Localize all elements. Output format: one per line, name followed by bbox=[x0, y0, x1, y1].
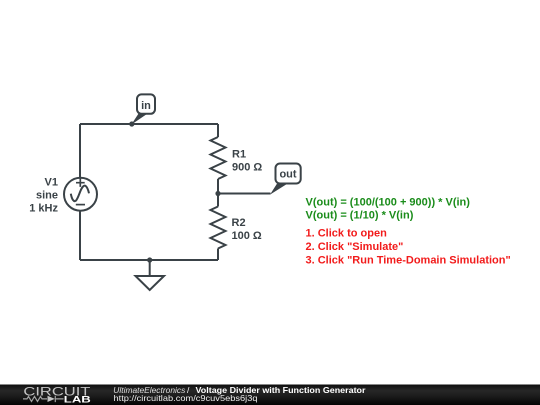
footer bar bbox=[0, 385, 540, 405]
svg-text:1 kHz: 1 kHz bbox=[29, 203, 58, 215]
svg-text:R2: R2 bbox=[232, 217, 246, 229]
svg-text:900 Ω: 900 Ω bbox=[232, 161, 262, 173]
svg-text:sine: sine bbox=[36, 190, 58, 202]
svg-text:V(out) = (100/(100 + 900)) * V: V(out) = (100/(100 + 900)) * V(in) bbox=[306, 196, 471, 208]
ground symbol stub bbox=[149, 260, 151, 276]
wire: left vertical from top net down to V1 top bbox=[79, 124, 81, 178]
svg-text:100 Ω: 100 Ω bbox=[232, 230, 262, 242]
svg-text:out: out bbox=[279, 169, 296, 181]
resistor R1 zigzag bbox=[211, 137, 226, 179]
voltage source V1 circle bbox=[64, 178, 97, 211]
wire: V1 bottom to bottom net bbox=[79, 211, 81, 260]
node flag out: tail bbox=[270, 184, 288, 195]
V1 plus sign bbox=[76, 179, 85, 187]
node flag in: box bbox=[137, 94, 155, 113]
wire: R1 bottom lead to out node bbox=[217, 179, 219, 194]
svg-text:R1: R1 bbox=[232, 149, 246, 161]
svg-text:V(out) = (1/10) * V(in): V(out) = (1/10) * V(in) bbox=[306, 209, 414, 221]
ground symbol triangle bbox=[136, 276, 165, 290]
wire: bottom net bbox=[80, 259, 218, 261]
wire: R2 bottom lead to bottom net bbox=[217, 249, 219, 261]
node: junction dot between R1 and R2 bbox=[215, 191, 220, 196]
V1 sine symbol bbox=[71, 186, 89, 202]
node: junction dot at in bbox=[129, 121, 134, 126]
wire: out node to out flag bbox=[218, 193, 271, 195]
svg-text:in: in bbox=[141, 100, 151, 112]
svg-text:http://circuitlab.com/c9cuv5eb: http://circuitlab.com/c9cuv5ebs6j3q bbox=[114, 393, 258, 403]
svg-text:LAB: LAB bbox=[64, 394, 91, 404]
node flag in: tail bbox=[131, 114, 147, 125]
footer logo schematic line with resistor and diode bbox=[23, 396, 64, 402]
node flag out: box bbox=[276, 164, 301, 184]
svg-text:1. Click to open: 1. Click to open bbox=[306, 227, 388, 239]
V1 minus sign bbox=[76, 204, 85, 206]
resistor R2 zigzag bbox=[211, 207, 226, 249]
svg-text:3. Click "Run Time-Domain Simu: 3. Click "Run Time-Domain Simulation" bbox=[306, 254, 511, 266]
node: junction dot at ground bbox=[147, 257, 152, 262]
wire: R1 top lead from top net bbox=[217, 124, 219, 137]
svg-text:2. Click "Simulate": 2. Click "Simulate" bbox=[306, 241, 404, 253]
wire: top net from source to R1 bbox=[80, 123, 218, 125]
wire: out node to R2 top lead bbox=[217, 194, 219, 207]
svg-text:V1: V1 bbox=[45, 177, 58, 189]
